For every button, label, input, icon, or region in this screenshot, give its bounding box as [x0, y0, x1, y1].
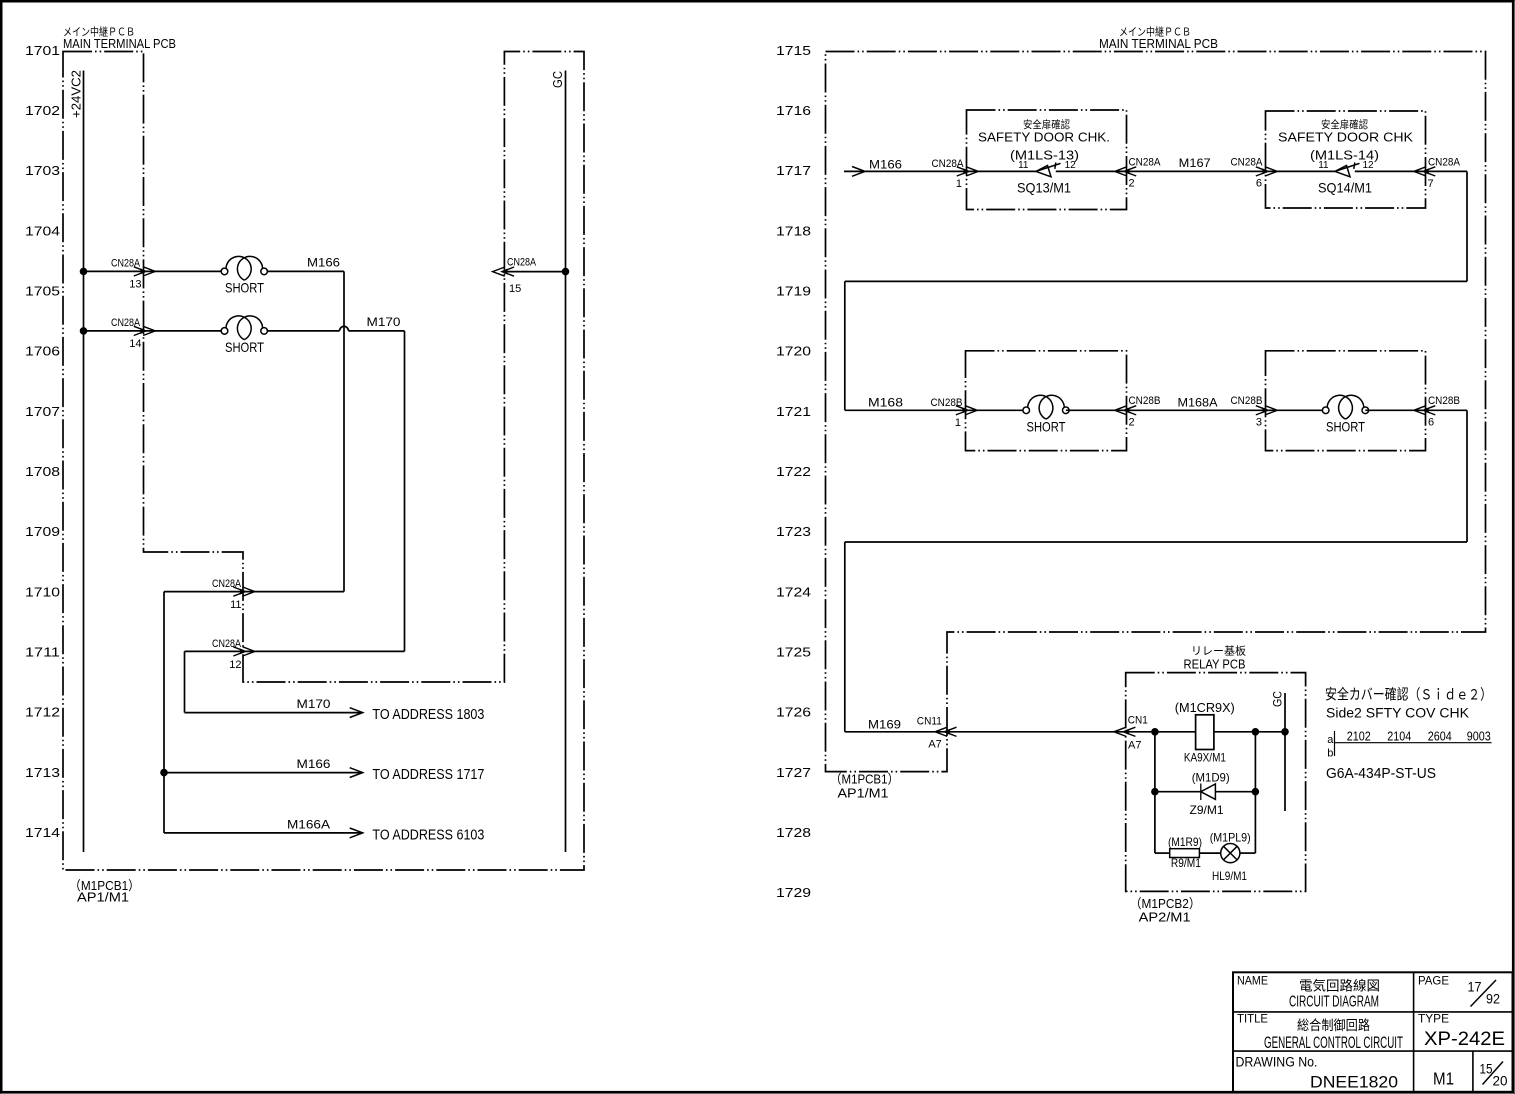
svg-text:AP1/M1: AP1/M1 — [77, 890, 129, 905]
svg-text:92: 92 — [1486, 991, 1500, 1007]
connector CN28A pin 2 — [1115, 156, 1161, 189]
wire row 1710 to junction with M166 — [164, 592, 344, 833]
svg-text:11: 11 — [1018, 160, 1029, 171]
svg-text:Z9/M1: Z9/M1 — [1190, 803, 1224, 817]
jumper SHORT (row 1721 left) — [966, 395, 1127, 434]
wire branch right to diode row — [1254, 732, 1256, 792]
svg-text:1708: 1708 — [25, 464, 60, 479]
wire M166 input row 1717 — [844, 157, 967, 176]
svg-text:1709: 1709 — [25, 524, 60, 539]
wire branch left diode row to resistor row — [1154, 792, 1156, 853]
svg-text:a: a — [1327, 734, 1334, 746]
connector CN28B pin 1 — [931, 397, 978, 429]
svg-text:MAIN TERMINAL PCB: MAIN TERMINAL PCB — [1099, 36, 1218, 51]
svg-text:1701: 1701 — [25, 43, 60, 58]
title block NAME cell — [1237, 974, 1380, 1011]
svg-text:M1: M1 — [1433, 1068, 1454, 1088]
svg-text:CN28A: CN28A — [111, 258, 141, 270]
jumper SHORT (row 1705) — [221, 256, 267, 295]
label (M1PCB1) AP1/M1 (right) — [830, 772, 899, 801]
svg-text:Side2 SFTY COV CHK: Side2 SFTY COV CHK — [1326, 706, 1469, 721]
svg-text:TO ADDRESS 1717: TO ADDRESS 1717 — [372, 767, 484, 783]
svg-text:(M1CR9X): (M1CR9X) — [1175, 701, 1235, 715]
net GC vertical line (left) — [550, 71, 566, 853]
label (M1PCB2) AP2/M1 — [1130, 896, 1201, 925]
svg-text:1704: 1704 — [25, 223, 60, 238]
svg-text:7: 7 — [1428, 178, 1434, 190]
svg-text:M166: M166 — [869, 157, 902, 171]
label (M1PCB1) AP1/M1 (left) — [69, 878, 140, 905]
jumper SHORT (row 1706) — [221, 316, 267, 355]
wire M166 to address 1717 — [161, 757, 485, 783]
wire M166 from SHORT down to row 1710 — [267, 256, 344, 592]
svg-text:M170: M170 — [367, 315, 401, 329]
svg-text:SHORT: SHORT — [225, 280, 264, 296]
svg-text:9003: 9003 — [1467, 729, 1491, 744]
svg-text:12: 12 — [1065, 160, 1077, 171]
wire from CN28A pin 15 to GC — [504, 268, 568, 275]
svg-text:1705: 1705 — [25, 284, 60, 299]
svg-text:AP1/M1: AP1/M1 — [838, 786, 889, 801]
wire coil to GC — [1214, 729, 1288, 736]
svg-text:2604: 2604 — [1428, 729, 1452, 744]
svg-text:GC: GC — [550, 71, 565, 88]
dashed outline SHORT block 1 — [966, 351, 1127, 451]
svg-text:1725: 1725 — [776, 645, 811, 660]
svg-text:DRAWING No.: DRAWING No. — [1236, 1054, 1318, 1069]
svg-text:12: 12 — [229, 659, 241, 671]
svg-text:1707: 1707 — [25, 404, 60, 419]
svg-text:CN28A: CN28A — [1129, 156, 1162, 168]
wire lamp row right — [1240, 852, 1256, 854]
connector CN28B pin 2 — [1115, 395, 1161, 428]
svg-text:CN28A: CN28A — [932, 158, 965, 170]
svg-text:SQ13/M1: SQ13/M1 — [1017, 179, 1071, 195]
svg-text:HL9/M1: HL9/M1 — [1212, 869, 1247, 883]
svg-text:PAGE: PAGE — [1418, 974, 1449, 988]
dashed outline safety door switch SQ13 — [967, 110, 1127, 210]
svg-text:1711: 1711 — [25, 645, 60, 660]
svg-text:1729: 1729 — [776, 885, 811, 900]
svg-text:M166A: M166A — [287, 818, 330, 832]
svg-text:CN28B: CN28B — [1129, 395, 1161, 407]
wire M168A between SHORT blocks — [1127, 396, 1266, 411]
title block DRAWING No cell DNEE1820 — [1236, 1054, 1399, 1091]
svg-text:SAFETY DOOR CHK: SAFETY DOOR CHK — [1278, 130, 1413, 145]
connector CN28A pin 6 — [1231, 156, 1278, 189]
svg-text:CN1: CN1 — [1128, 715, 1148, 727]
diode row wire with junctions — [1152, 788, 1259, 795]
title block TYPE cell XP-242E — [1418, 1011, 1505, 1049]
svg-text:CN28B: CN28B — [1231, 395, 1263, 407]
wire M166A to address 6103 — [164, 818, 484, 844]
svg-text:6: 6 — [1256, 177, 1262, 189]
connector CN11 pin A7 — [917, 716, 957, 751]
svg-text:SHORT: SHORT — [1027, 419, 1066, 435]
svg-text:M168: M168 — [868, 396, 903, 410]
svg-text:1712: 1712 — [25, 705, 60, 720]
connector CN1 pin A7 — [1114, 715, 1148, 752]
svg-text:TYPE: TYPE — [1418, 1011, 1449, 1025]
svg-text:TITLE: TITLE — [1237, 1011, 1268, 1025]
jumper SHORT (row 1721 right) — [1266, 395, 1426, 434]
svg-text:1721: 1721 — [776, 404, 811, 419]
title block frame — [1233, 972, 1513, 1092]
svg-text:A7: A7 — [1128, 740, 1141, 752]
svg-text:総合制御回路: 総合制御回路 — [1297, 1018, 1370, 1033]
wire row 1711 to junction with M170 — [185, 651, 405, 712]
diode M1D9 Z9/M1 — [1190, 771, 1230, 817]
wire 1705 from +24VC2 to SHORT — [80, 268, 221, 275]
title block PAGE cell 17/92 — [1418, 974, 1500, 1007]
dashed outline safety door switch SQ14 — [1266, 111, 1426, 208]
svg-text:17: 17 — [1468, 978, 1482, 994]
svg-text:(M1R9): (M1R9) — [1168, 835, 1202, 849]
svg-text:R9/M1: R9/M1 — [1171, 856, 1201, 870]
svg-text:NAME: NAME — [1237, 974, 1268, 988]
svg-text:+24VC2: +24VC2 — [69, 70, 84, 118]
svg-text:13: 13 — [129, 279, 141, 291]
svg-text:CN28A: CN28A — [111, 317, 141, 329]
dashed outline MAIN TERMINAL PCB M1PCB1 (right) — [826, 52, 1486, 772]
svg-text:3: 3 — [1256, 416, 1262, 428]
connector CN28A pin 15 — [493, 256, 537, 295]
svg-text:6: 6 — [1428, 416, 1434, 428]
connector CN28B pin 3 — [1231, 395, 1278, 428]
svg-text:1723: 1723 — [776, 524, 811, 539]
svg-text:1727: 1727 — [776, 765, 811, 780]
wire M170 to address 1803 — [185, 697, 485, 723]
wire branch left to diode row — [1154, 732, 1156, 792]
left line-number labels 1701-1714 — [25, 43, 60, 840]
svg-text:M170: M170 — [297, 697, 331, 711]
connector CN28A pin 7 — [1414, 156, 1461, 190]
note Side2 SFTY COV CHK — [1325, 686, 1492, 721]
svg-text:1717: 1717 — [776, 163, 811, 178]
svg-text:b: b — [1327, 748, 1333, 760]
svg-text:TO ADDRESS 1803: TO ADDRESS 1803 — [372, 707, 484, 723]
label MAIN TERMINAL PCB (left) — [63, 25, 176, 52]
svg-text:CIRCUIT DIAGRAM: CIRCUIT DIAGRAM — [1289, 993, 1379, 1010]
svg-text:SHORT: SHORT — [1326, 419, 1365, 435]
wire M168 row 1721 — [845, 396, 966, 411]
power rail +24VC2 — [69, 70, 84, 852]
svg-text:1718: 1718 — [776, 223, 811, 238]
svg-text:1710: 1710 — [25, 584, 60, 599]
svg-text:14: 14 — [129, 338, 141, 350]
svg-text:DNEE1820: DNEE1820 — [1310, 1072, 1398, 1091]
wire M169 row 1726 — [845, 718, 947, 732]
limit switch contact SQ13 pins 11-12 — [967, 160, 1127, 177]
svg-text:CN28A: CN28A — [1231, 156, 1264, 168]
svg-text:KA9X/M1: KA9X/M1 — [1184, 750, 1226, 764]
svg-text:15: 15 — [1480, 1060, 1493, 1076]
address table a/b 2102 2104 2604 9003 — [1327, 729, 1491, 760]
wire resistor row left — [1155, 852, 1170, 854]
svg-text:TO ADDRESS 6103: TO ADDRESS 6103 — [372, 827, 484, 843]
svg-text:CN28B: CN28B — [1428, 395, 1460, 407]
svg-text:11: 11 — [1318, 160, 1329, 171]
connector CN28B pin 6 — [1414, 395, 1460, 428]
net GC line (relay pcb) — [1271, 691, 1286, 811]
svg-text:電気回路線図: 電気回路線図 — [1299, 979, 1380, 994]
svg-text:1726: 1726 — [776, 705, 811, 720]
svg-text:G6A-434P-ST-US: G6A-434P-ST-US — [1326, 766, 1436, 782]
connector CN28A pin 13 — [111, 258, 155, 291]
wire CN1 to relay coil — [1126, 729, 1196, 736]
svg-text:1716: 1716 — [776, 103, 811, 118]
svg-text:2104: 2104 — [1387, 729, 1411, 744]
svg-text:1715: 1715 — [776, 43, 811, 58]
right line-number labels 1715-1729 — [776, 43, 811, 900]
svg-text:CN28A: CN28A — [212, 638, 242, 650]
wire from CN28A-7 down and across to row 1721 — [845, 171, 1467, 410]
svg-text:1714: 1714 — [25, 825, 60, 840]
svg-text:MAIN TERMINAL PCB: MAIN TERMINAL PCB — [63, 36, 176, 51]
svg-text:SAFETY DOOR CHK.: SAFETY DOOR CHK. — [978, 130, 1110, 145]
svg-text:GENERAL CONTROL CIRCUIT: GENERAL CONTROL CIRCUIT — [1264, 1034, 1403, 1052]
wire CN11 to CN1 — [947, 731, 1126, 733]
svg-text:M169: M169 — [868, 718, 901, 732]
wire 1706 from +24VC2 to SHORT — [80, 328, 221, 335]
connector CN28A pin 1 — [932, 158, 979, 190]
svg-text:M167: M167 — [1179, 156, 1211, 170]
svg-text:1702: 1702 — [25, 103, 60, 118]
svg-text:1703: 1703 — [25, 163, 60, 178]
svg-text:(M1PL9): (M1PL9) — [1210, 831, 1251, 845]
svg-text:1: 1 — [956, 178, 962, 190]
svg-text:M166: M166 — [307, 256, 340, 270]
svg-text:CN28A: CN28A — [1428, 156, 1461, 168]
svg-text:1728: 1728 — [776, 825, 811, 840]
svg-text:(M1D9): (M1D9) — [1192, 771, 1230, 785]
dashed outline SHORT block 2 — [1266, 351, 1426, 451]
svg-text:1: 1 — [955, 417, 961, 429]
svg-text:SHORT: SHORT — [225, 339, 264, 355]
wire resistor to lamp — [1199, 852, 1220, 854]
svg-text:M168A: M168A — [1178, 396, 1218, 410]
limit switch contact SQ14 pins 11-12 — [1266, 160, 1426, 177]
lamp M1PL9 HL9/M1 — [1210, 831, 1251, 883]
svg-text:安全カバー確認（Ｓｉｄｅ２）: 安全カバー確認（Ｓｉｄｅ２） — [1325, 686, 1492, 704]
svg-text:CN28B: CN28B — [931, 397, 963, 409]
svg-text:1722: 1722 — [776, 464, 811, 479]
svg-text:1706: 1706 — [25, 344, 60, 359]
resistor M1R9 R9/M1 — [1168, 835, 1202, 870]
svg-text:CN28A: CN28A — [507, 256, 537, 268]
svg-text:1713: 1713 — [25, 765, 60, 780]
svg-text:1719: 1719 — [776, 284, 811, 299]
wire branch right diode row to lamp row — [1254, 792, 1256, 853]
title block sheet 15/20 cell — [1480, 1060, 1508, 1088]
svg-text:CN11: CN11 — [917, 716, 942, 728]
connector CN28A pin 11 — [212, 578, 255, 611]
svg-text:GC: GC — [1271, 691, 1285, 707]
svg-text:SQ14/M1: SQ14/M1 — [1318, 179, 1372, 195]
svg-text:11: 11 — [230, 599, 241, 611]
svg-text:（M1PCB1）: （M1PCB1） — [830, 772, 899, 787]
labels SAFETY DOOR CHK (M1LS-13) — [978, 118, 1110, 195]
dashed outline MAIN TERMINAL PCB M1PCB1 (left) — [63, 52, 584, 871]
svg-text:15: 15 — [509, 283, 521, 295]
wire M167 between SQ13 and SQ14 — [1127, 156, 1266, 172]
dashed outline RELAY PCB M1PCB2 — [1126, 673, 1306, 892]
title block TITLE cell — [1237, 1011, 1403, 1052]
label RELAY PCB — [1184, 644, 1247, 672]
svg-text:M166: M166 — [297, 757, 331, 771]
svg-text:2: 2 — [1129, 177, 1135, 189]
svg-text:1724: 1724 — [776, 584, 811, 599]
svg-text:2102: 2102 — [1347, 729, 1371, 744]
svg-text:XP-242E: XP-242E — [1424, 1029, 1505, 1050]
relay coil M1CR9X KA9X/M1 — [1175, 701, 1235, 764]
connector CN28A pin 12 — [212, 638, 255, 671]
label MAIN TERMINAL PCB (right) — [1099, 25, 1218, 52]
wire M170 with hop over M166 down to row 1711 — [267, 315, 404, 651]
labels SAFETY DOOR CHK (M1LS-14) — [1278, 118, 1413, 195]
connector CN28A pin 14 — [111, 317, 155, 350]
svg-text:A7: A7 — [928, 739, 941, 751]
svg-text:20: 20 — [1493, 1072, 1508, 1088]
svg-text:リレー基板: リレー基板 — [1191, 644, 1246, 658]
svg-text:1720: 1720 — [776, 344, 811, 359]
svg-text:2: 2 — [1129, 416, 1135, 428]
svg-text:RELAY PCB: RELAY PCB — [1184, 657, 1246, 672]
wire from CN28B-6 down and across to M169 — [845, 410, 1467, 732]
svg-text:AP2/M1: AP2/M1 — [1139, 910, 1191, 925]
svg-text:CN28A: CN28A — [212, 578, 242, 590]
svg-text:12: 12 — [1363, 160, 1375, 171]
